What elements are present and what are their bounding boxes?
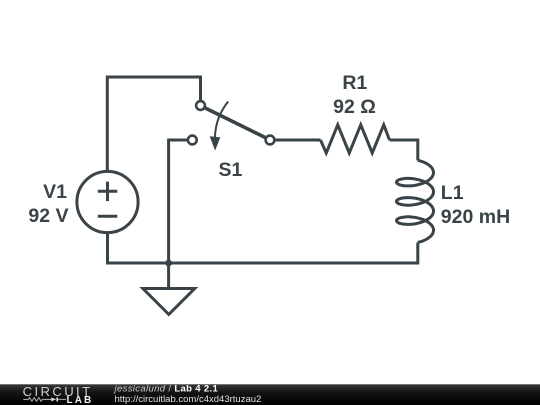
- junction node dot: [165, 260, 172, 267]
- switch S1 arrowhead: [210, 136, 221, 150]
- voltage source V1: [77, 171, 138, 232]
- resistor R1 zigzag: [321, 125, 390, 153]
- inductor L1 coil: [397, 160, 434, 242]
- svg-text:V1: V1: [43, 181, 67, 203]
- svg-text:http://circuitlab.com/c4xd43rt: http://circuitlab.com/c4xd43rtuzau2: [115, 394, 262, 405]
- ground stub wire: [167, 263, 170, 289]
- svg-text:L1: L1: [441, 182, 464, 204]
- svg-text:S1: S1: [218, 159, 242, 181]
- svg-text:92 V: 92 V: [28, 205, 68, 227]
- wire top-left from V1 to switch: [107, 77, 200, 171]
- svg-text:92 Ω: 92 Ω: [333, 96, 376, 118]
- svg-text:920 mH: 920 mH: [441, 206, 510, 228]
- logo diode symbol: [51, 397, 56, 401]
- svg-text:LAB: LAB: [67, 395, 94, 405]
- switch terminal throw: [266, 136, 275, 145]
- switch S1 blade: [205, 108, 267, 138]
- wire resistor to inductor corner: [390, 140, 418, 160]
- wire switch pole to ground rail: [169, 140, 188, 263]
- switch terminal pole: [188, 136, 197, 145]
- footer bar: [0, 384, 540, 405]
- label V1 value 92 V: [28, 181, 68, 227]
- ground symbol: [143, 289, 195, 315]
- switch S1 motion arc: [215, 102, 228, 140]
- svg-text:R1: R1: [342, 72, 367, 94]
- label R1 value 92 ohm: [333, 72, 376, 118]
- svg-text:jessicalund / Lab 4 2.1: jessicalund / Lab 4 2.1: [113, 383, 219, 394]
- switch terminal top: [196, 101, 205, 110]
- logo resistor zigzag: [23, 398, 51, 402]
- label L1 value 920 mH: [441, 182, 510, 228]
- wire switch throw to resistor: [274, 139, 320, 142]
- wire bottom rail: [108, 233, 418, 263]
